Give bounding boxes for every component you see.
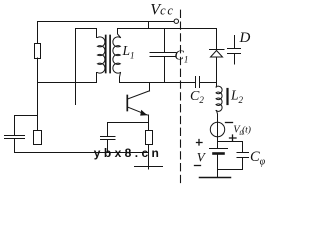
svg-text:L1: L1 — [122, 43, 135, 60]
svg-text:Vcc: Vcc — [150, 1, 174, 18]
svg-text:Cφ: Cφ — [250, 149, 266, 168]
svg-text:D: D — [239, 30, 251, 46]
svg-text:V: V — [197, 150, 207, 165]
svg-text:C1: C1 — [175, 49, 189, 65]
svg-text:C2: C2 — [190, 89, 204, 105]
svg-text:L2: L2 — [230, 88, 244, 105]
svg-text:ybx8.cn: ybx8.cn — [94, 146, 163, 160]
svg-text:(t): (t) — [242, 125, 251, 136]
